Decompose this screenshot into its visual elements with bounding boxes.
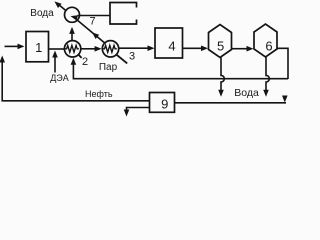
svg-text:ДЭА: ДЭА (50, 73, 69, 83)
svg-text:Пар: Пар (99, 62, 118, 73)
svg-text:3: 3 (129, 51, 135, 63)
svg-text:Нефть: Нефть (85, 89, 113, 99)
svg-text:6: 6 (265, 38, 272, 53)
svg-text:1: 1 (35, 40, 42, 55)
svg-text:Вода: Вода (30, 8, 54, 19)
svg-text:9: 9 (161, 97, 168, 112)
svg-text:2: 2 (82, 56, 88, 68)
svg-text:Вода: Вода (234, 87, 259, 99)
svg-text:7: 7 (89, 15, 95, 27)
svg-text:4: 4 (168, 38, 175, 53)
svg-text:5: 5 (217, 38, 224, 53)
